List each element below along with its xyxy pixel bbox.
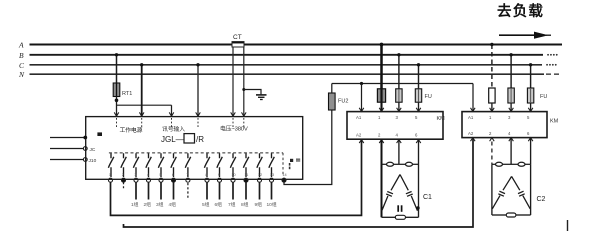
svg-text:FU: FU [425, 94, 432, 100]
terminal 3 [134, 178, 138, 182]
wire: tap bus C down to controller [141, 65, 143, 117]
svg-text:N: N [18, 70, 25, 79]
stray tick mark [567, 220, 569, 231]
svg-text:14: 14 [282, 173, 286, 177]
mark speck [97, 132, 102, 136]
wire output stub x173.5 [173, 182, 175, 199]
terminal 10 [231, 178, 235, 182]
wire output stub x271.5 [271, 182, 273, 199]
svg-text:JGL—: JGL— [161, 135, 184, 144]
label com mark [290, 159, 293, 162]
svg-text:1组: 1组 [131, 201, 139, 208]
wire COM feed to fuse FU2 [284, 110, 332, 184]
wire coil drop to KM1 [361, 84, 363, 112]
svg-text:13: 13 [270, 173, 274, 177]
svg-text:FU2: FU2 [338, 99, 348, 105]
svg-text:J10: J10 [89, 158, 97, 164]
wire: tap bus C down to controller (voltage input) [197, 65, 199, 117]
wire C2 right side [530, 164, 532, 215]
terminal 5 [159, 178, 163, 182]
svg-text:/R: /R [196, 135, 204, 144]
current transformer CT [232, 34, 244, 47]
svg-text:2: 2 [122, 173, 124, 177]
fuse FU 1b [396, 89, 402, 102]
arrow: to load direction [499, 32, 551, 39]
svg-text:4组: 4组 [169, 201, 177, 208]
svg-text:6: 6 [172, 173, 174, 177]
svg-text:5组: 5组 [202, 201, 210, 208]
terminal 6 [172, 178, 176, 182]
terminal 13 [270, 178, 274, 182]
fuse RT1 [113, 83, 120, 97]
wire aux input 2 [50, 148, 84, 150]
terminal 8 [205, 178, 209, 182]
relay contact K4 [146, 153, 151, 177]
wire C1 phase c [418, 140, 420, 218]
wire output stub x207 [206, 182, 208, 199]
svg-text:9: 9 [218, 173, 220, 177]
wire C2 phase a (dashed) [491, 142, 493, 165]
svg-text:6组: 6组 [215, 201, 223, 208]
terminal 11 [244, 178, 248, 182]
wire C1 phase b [398, 140, 400, 165]
KM2 terminal arrows [471, 108, 533, 141]
junction on bus C [140, 63, 143, 66]
wire CT lead S2 [243, 47, 245, 116]
terminal aux 1 [83, 136, 87, 140]
relay contact K11 [243, 153, 248, 177]
wire output stub x259.5 [259, 182, 261, 199]
svg-text:10组: 10组 [267, 201, 277, 208]
KM1 terminal arrows [359, 108, 421, 143]
junction node [115, 99, 119, 103]
wire C1 phase a (thick) [381, 140, 383, 218]
svg-text:FU: FU [540, 94, 547, 100]
wire aux input 1 [50, 137, 84, 139]
terminal aux 2 [83, 147, 87, 151]
C1 base with discharge element [382, 216, 397, 218]
contactor KM1 box [347, 112, 443, 140]
svg-text:11: 11 [244, 173, 248, 177]
wire output stub x246 [245, 182, 247, 199]
svg-text:KM: KM [437, 116, 446, 122]
relay contact K2 [121, 153, 126, 177]
wire output stub x233 [232, 182, 234, 199]
fuse FU 2a [489, 88, 495, 103]
wire output stub x136 [135, 182, 137, 199]
terminal dashed tails inside box [116, 118, 118, 129]
svg-text:8: 8 [205, 173, 207, 177]
wire coil supply bus [332, 83, 473, 85]
KM1 pin labels [356, 115, 418, 138]
svg-text:7: 7 [186, 173, 188, 177]
wire controller output 2 to KM2 coil return [124, 138, 474, 227]
dashed stub under terminal 2 [123, 182, 125, 189]
svg-text:3: 3 [134, 173, 136, 177]
wire tap bus A (thick) [380, 45, 383, 89]
svg-text:4: 4 [147, 173, 149, 177]
svg-text:A1: A1 [356, 115, 362, 120]
capacitor C1 top link with capacitors [382, 162, 419, 166]
fuse FU2 [329, 93, 336, 110]
wire: distribution bracket [117, 104, 172, 106]
wire CT lead S1 [232, 47, 234, 116]
wire tap bus B (bank2) [510, 55, 512, 88]
wire tap bus C [418, 65, 420, 89]
wire C2 phase c [530, 138, 532, 165]
bus A [30, 43, 563, 45]
capacitor C2 delta [492, 176, 530, 208]
relay contact K3 [133, 153, 138, 177]
svg-text:A2: A2 [356, 133, 362, 138]
C2 base with discharge element [492, 214, 506, 216]
bus B [30, 54, 544, 56]
svg-text:讯号输入: 讯号输入 [162, 125, 185, 133]
terminal 4 [147, 178, 151, 182]
wire KM1 coil return to controller output 1 [111, 140, 362, 216]
wire: fuse RT1 to controller [116, 97, 118, 117]
bus N [30, 73, 545, 75]
svg-text:C1: C1 [423, 194, 432, 201]
dashed relay group outline [109, 152, 283, 154]
relay contact K9 [217, 153, 222, 177]
wire FU2 top to coil bus [331, 84, 333, 94]
junction on bus C [196, 63, 199, 66]
svg-text:1: 1 [109, 173, 111, 177]
wire tap bus C (bank2) [530, 65, 532, 88]
svg-text:12: 12 [258, 173, 262, 177]
relay contact K7 [185, 153, 190, 177]
relay contact K1 [108, 153, 113, 177]
dashed stub under terminal 7 [187, 183, 189, 199]
wire output stub x148.5 [148, 182, 150, 199]
terminal 1 [109, 178, 113, 182]
svg-text:C2: C2 [537, 196, 546, 203]
relay contact K8 [204, 153, 209, 177]
wire aux input 3 [50, 159, 84, 161]
wire output stub x219.5 [219, 182, 221, 199]
svg-text:2组: 2组 [144, 201, 152, 208]
wire output stub x161 [160, 182, 162, 199]
fuse FU 2c [527, 88, 533, 103]
capacitor C2 top link with capacitors [492, 162, 531, 166]
svg-text:10: 10 [231, 173, 235, 177]
wire tap bus B [398, 55, 400, 89]
ground symbol [242, 88, 266, 100]
svg-text:CT: CT [233, 34, 242, 41]
wire tap bus A (bank2) [491, 45, 493, 89]
svg-text:RT1: RT1 [122, 91, 132, 97]
svg-text:9组: 9组 [255, 201, 263, 208]
fuse FU 1c [415, 89, 421, 102]
label model JGL-□/R [161, 134, 204, 144]
controller U1 (compensation controller) box [86, 117, 303, 180]
wire C2 phase b [510, 138, 512, 165]
svg-text:5: 5 [159, 173, 161, 177]
svg-text:B: B [19, 51, 24, 60]
wire: tap bus B down to fuse RT1 [116, 55, 118, 83]
junction on bus B [115, 53, 118, 56]
svg-text:JC: JC [90, 147, 96, 153]
svg-text:A1: A1 [468, 115, 474, 120]
svg-text:A: A [18, 41, 24, 50]
fuse FU 2b [508, 88, 514, 103]
terminal 9 [218, 178, 222, 182]
svg-text:A2: A2 [468, 131, 474, 136]
relay contact K13 [269, 153, 274, 177]
relay contact K5 [158, 153, 163, 177]
relay contact K6 [171, 153, 176, 177]
terminal 2 [122, 178, 126, 182]
relay contact K12 [257, 153, 262, 177]
svg-text:工作电源: 工作电源 [120, 126, 143, 134]
svg-text:KM: KM [550, 119, 559, 125]
capacitor plates above base [397, 205, 399, 212]
terminal arrows on controller top edge [114, 112, 246, 116]
terminal aux 3 [83, 158, 87, 162]
wire: bracket drop [171, 105, 173, 116]
relay contact K10 [230, 153, 235, 177]
svg-text:7组: 7组 [228, 201, 236, 208]
capacitor C1 delta [382, 175, 418, 211]
svg-text:电压~380V: 电压~380V [220, 124, 248, 132]
KM2 pin labels [468, 115, 530, 136]
bus C [30, 64, 543, 66]
junction node [416, 206, 419, 209]
fuse FU 1a [377, 89, 385, 102]
terminal 7 [186, 178, 190, 182]
contactor KM2 box [462, 112, 547, 138]
svg-text:去负载: 去负载 [497, 2, 544, 20]
wire C2 left side [491, 164, 493, 215]
wire coil drop to KM2 [472, 84, 474, 112]
svg-text:3组: 3组 [156, 201, 164, 208]
svg-text:8组: 8组 [241, 201, 249, 208]
terminal 12 [258, 178, 262, 182]
terminal 14 [282, 178, 286, 182]
